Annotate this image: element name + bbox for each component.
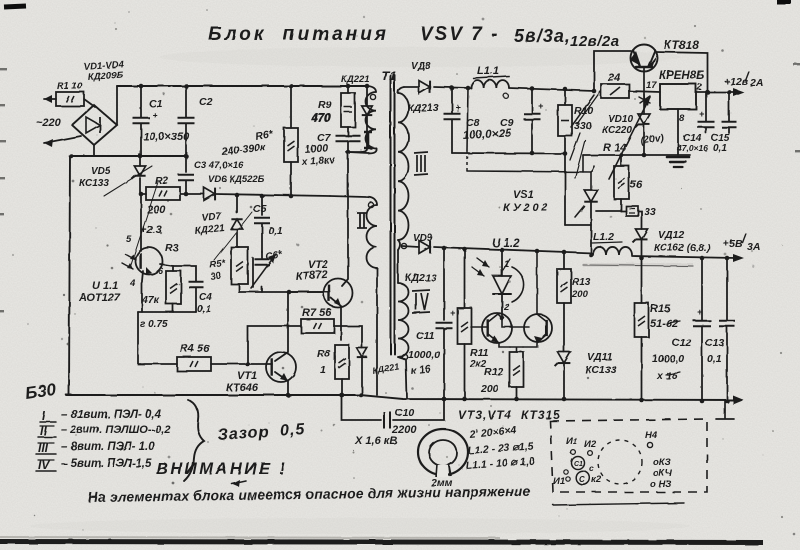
transistor VT4 <box>524 314 552 342</box>
wire C12 upper <box>701 258 703 320</box>
svg-text:100,0×25: 100,0×25 <box>463 127 512 142</box>
wire opto bottom rail <box>138 311 196 313</box>
resistor R10 <box>558 105 572 136</box>
svg-text:5: 5 <box>126 234 132 245</box>
svg-text:L1.1: L1.1 <box>477 65 499 77</box>
svg-text:с: с <box>589 463 594 473</box>
node top rail R6 <box>289 84 294 89</box>
wire VD10 lower <box>643 125 645 155</box>
svg-text:VD10: VD10 <box>608 114 633 125</box>
svg-text:VD7: VD7 <box>201 211 222 224</box>
svg-text:КС133: КС133 <box>585 364 617 376</box>
scan specks <box>0 68 7 70</box>
node C5 top <box>260 194 265 199</box>
wire C2 upper <box>185 86 187 117</box>
black strip bottom edge <box>0 542 763 543</box>
node VT1 collector tap <box>287 290 292 295</box>
wire VD5 to R2 <box>139 178 141 194</box>
svg-text:2: 2 <box>696 82 702 92</box>
R14 arrow <box>609 97 650 179</box>
wire C13 lower <box>726 327 728 401</box>
svg-text:С: С <box>579 475 585 484</box>
wire C10 left leg <box>342 395 382 420</box>
svg-text:17: 17 <box>646 80 657 91</box>
svg-text:C13: C13 <box>705 337 724 349</box>
svg-text:47к: 47к <box>141 294 160 306</box>
wire LED lower <box>501 294 503 318</box>
svg-text:330: 330 <box>574 120 592 132</box>
wire R4 left riser <box>138 312 177 364</box>
resistor R13 <box>557 269 571 303</box>
svg-text:VSV 7 -: VSV 7 - <box>420 24 499 45</box>
wire snubber diode bottom <box>361 357 363 395</box>
wire C10 right leg <box>393 399 444 420</box>
wire 56 upper <box>620 155 622 166</box>
svg-text:1: 1 <box>320 364 326 376</box>
capacitor C2 <box>178 118 195 124</box>
node R8 bottom rail <box>340 393 345 398</box>
svg-text:C2: C2 <box>199 96 213 108</box>
wire R9 upper <box>347 86 349 93</box>
winding III-IV tap dot <box>401 243 406 248</box>
resistor R2 <box>146 187 180 200</box>
black dash top-right corner <box>777 0 791 5</box>
wire bottom rail <box>66 395 737 400</box>
wire VT2 base <box>289 291 330 293</box>
pin I2 circle <box>588 451 593 456</box>
wire VT3 base <box>471 326 488 328</box>
node C9 gnd <box>530 151 535 156</box>
wire opto emitter pin4 <box>142 271 143 312</box>
zener VD10 <box>638 114 650 124</box>
inductor L1.2 <box>593 247 632 255</box>
node snubber <box>346 150 351 155</box>
node top rail R9 <box>346 84 351 89</box>
wire R15 upper <box>641 258 643 303</box>
bridge rectifier VD1-VD4 <box>72 105 117 145</box>
wire R2 to VD6 <box>180 193 204 195</box>
resistor R4 <box>177 357 211 371</box>
wire C5 stub top <box>261 196 263 215</box>
svg-text:R15: R15 <box>650 303 671 315</box>
node neg rail VD5 <box>138 154 143 159</box>
svg-text:R2: R2 <box>155 175 169 187</box>
wire VD11 lower <box>563 363 565 399</box>
light arrows into opto <box>125 254 136 260</box>
diode VD9 <box>419 241 430 254</box>
svg-text:R3: R3 <box>165 242 179 254</box>
wire C15 lower <box>728 128 730 133</box>
wire VT4 collector <box>537 251 547 322</box>
warning underline <box>553 503 684 505</box>
svg-text:Х 1,6 кВ: Х 1,6 кВ <box>354 435 397 447</box>
wire KT818 emitter riser <box>594 51 631 91</box>
svg-text:– 5вит. ПЭЛ-1,5: – 5вит. ПЭЛ-1,5 <box>61 458 152 470</box>
transistor KT818 <box>631 45 658 72</box>
svg-text:51-62: 51-62 <box>650 318 678 330</box>
svg-text:КТ818: КТ818 <box>664 38 699 52</box>
wire R11 upper <box>464 249 466 308</box>
wire VS1 anode riser <box>583 155 591 190</box>
wire R3 bottom <box>172 304 174 312</box>
node R10 tap <box>563 87 568 92</box>
wire emitter to snubber diode <box>341 326 362 348</box>
wire KD221 lower <box>348 115 367 152</box>
wire 56 lower <box>620 199 622 211</box>
wire AC input bottom with arrow <box>44 136 81 143</box>
resistor R3 <box>166 271 181 304</box>
svg-text:2мм: 2мм <box>430 477 453 489</box>
resistor R15 <box>635 303 649 337</box>
wire VT2 emitter <box>331 298 341 340</box>
winding III <box>398 87 404 93</box>
scan smudge bottom <box>30 518 690 534</box>
svg-text:VD9: VD9 <box>413 233 433 244</box>
wire VT1 collector <box>275 292 288 361</box>
node L1.1 left <box>466 86 471 91</box>
diode KD221 snubber <box>357 348 368 357</box>
svg-text:200: 200 <box>571 289 589 300</box>
wire R10 to VS1 bottom <box>565 224 591 226</box>
node top rail C2 <box>184 84 189 89</box>
node rail LED <box>500 248 505 253</box>
svg-text:VT3,VT4 КТ315: VT3,VT4 КТ315 <box>458 408 561 422</box>
capacitor C10 <box>384 412 390 429</box>
svg-text:г 0.75: г 0.75 <box>140 319 168 330</box>
wire C2 lower <box>185 124 187 156</box>
svg-text:4: 4 <box>129 278 136 289</box>
node R12 rail <box>514 397 519 402</box>
opto transistor U1.1 <box>136 248 163 275</box>
capacitor C8 <box>444 114 461 120</box>
wire VS1 gate to 33 <box>596 210 626 212</box>
node C3 bottom <box>184 192 189 197</box>
wire C12 lower <box>701 327 703 401</box>
svg-text:КС133: КС133 <box>79 178 109 189</box>
wire C3 upper <box>185 156 187 172</box>
wire VT1 base <box>211 363 272 365</box>
node C10 right rail <box>442 397 447 402</box>
svg-text:Н4: Н4 <box>645 430 658 441</box>
node R15 rail <box>639 398 644 403</box>
node rail C12 <box>700 256 705 261</box>
scan smudge top <box>160 47 680 67</box>
wire C9 upper <box>531 88 533 113</box>
svg-text:АОТ127: АОТ127 <box>78 292 121 304</box>
wire rail drop to box <box>716 400 734 419</box>
wire VD5 top <box>139 156 141 166</box>
dashed circle connector <box>598 440 642 484</box>
wire C9 lower <box>531 120 533 153</box>
wire C4 top link <box>173 266 196 281</box>
capacitor C6 variable <box>253 252 262 287</box>
inductor L1.1 <box>471 80 509 88</box>
wire VT3 collector <box>488 314 502 322</box>
svg-text:47,0×16: 47,0×16 <box>676 143 708 153</box>
wire R13 upper <box>563 252 565 269</box>
node output C14 <box>705 90 710 95</box>
node rail R11 <box>462 247 467 252</box>
wire opto base pin6 <box>160 264 173 271</box>
label winding III <box>414 152 428 175</box>
svg-text:C5: C5 <box>253 203 267 215</box>
svg-text:ВНИМАНИЕ !: ВНИМАНИЕ ! <box>156 460 287 478</box>
diode KD221 primary <box>362 106 373 115</box>
wire R11 lower <box>464 344 466 399</box>
wire C1 upper <box>140 86 142 117</box>
svg-text:U 1.2: U 1.2 <box>492 238 520 250</box>
zener VD5 <box>134 166 145 176</box>
stray stroke across VD5 <box>104 166 152 196</box>
node output C15 <box>727 90 732 95</box>
svg-text:R9: R9 <box>318 99 332 111</box>
wire C8 upper <box>451 88 453 113</box>
svg-text:к2: к2 <box>591 474 602 485</box>
capacitor C14 <box>698 122 715 128</box>
resistor R9 <box>341 93 355 127</box>
transformer T1 core <box>390 75 392 354</box>
svg-text:200: 200 <box>480 383 499 395</box>
svg-text:R4 56: R4 56 <box>180 343 210 355</box>
wire L1.1 to 24box <box>509 88 594 91</box>
wire VD7 to R5 <box>236 229 238 247</box>
svg-text:КД213: КД213 <box>405 272 437 284</box>
wire C13 upper <box>726 258 728 320</box>
faint crease line <box>583 265 693 266</box>
wire C6 bottom <box>261 287 263 292</box>
node neg rail left <box>69 154 74 159</box>
wire R9 lower <box>347 127 349 136</box>
thyristor VS1 <box>584 190 598 202</box>
svg-text:VД8: VД8 <box>411 61 431 72</box>
resistor R7 <box>301 319 334 333</box>
base scribble <box>639 94 650 106</box>
wire bridge plus up <box>116 86 118 125</box>
svg-text:R8: R8 <box>317 348 331 360</box>
node C10 left <box>339 393 344 398</box>
resistor R11 <box>458 308 472 344</box>
svg-text:КД213: КД213 <box>407 102 439 114</box>
wire VT4 emitter <box>523 334 547 347</box>
svg-text:оКЗ: оКЗ <box>653 457 671 468</box>
wire bridge minus down <box>93 145 95 156</box>
svg-text:КС162 (6.8.): КС162 (6.8.) <box>654 243 711 254</box>
wire VD12 lower <box>641 240 643 258</box>
svg-text:– 8вит. ПЭЛ- 1.0: – 8вит. ПЭЛ- 1.0 <box>61 441 155 453</box>
node R6 bottom <box>289 194 294 199</box>
svg-text:+5В: +5В <box>723 238 743 250</box>
svg-text:2: 2 <box>503 302 510 313</box>
svg-text:200: 200 <box>146 204 166 216</box>
wire R13 lower <box>563 303 565 352</box>
zener VD11 <box>558 352 571 363</box>
node LED base junction <box>500 316 505 321</box>
svg-text:0,1: 0,1 <box>197 304 211 315</box>
wire VT4 base <box>502 318 529 327</box>
wire 24box to KREN <box>629 91 660 92</box>
winding I <box>368 86 376 92</box>
node VT1 emitter rail <box>286 393 291 398</box>
wire R5 bottom <box>238 284 240 292</box>
svg-text:8: 8 <box>679 113 685 124</box>
node bypass left <box>592 89 597 94</box>
wire C7 lower <box>347 141 349 152</box>
pin small o left <box>564 470 568 474</box>
svg-text:VD5: VD5 <box>91 166 111 177</box>
svg-text:+: + <box>450 308 456 318</box>
wire left rail down <box>69 156 70 395</box>
diode VD7 <box>231 219 242 229</box>
svg-text:12в/2а: 12в/2а <box>570 33 620 50</box>
wire base rail y292 <box>239 291 329 293</box>
svg-text:VT1: VT1 <box>237 370 257 382</box>
node rail VD12 <box>639 256 644 261</box>
svg-text:L1.2: L1.2 <box>593 231 614 243</box>
svg-text:C4: C4 <box>199 292 212 303</box>
label winding IV <box>412 290 430 313</box>
wire R2 left stub <box>141 193 146 195</box>
svg-text:R13: R13 <box>572 277 591 288</box>
wire emitters to R12 <box>510 347 523 352</box>
transistor VT3 <box>482 313 512 343</box>
svg-text:к 16: к 16 <box>410 363 431 377</box>
opto emitter arrow <box>146 267 152 274</box>
wire KREN output <box>696 91 737 93</box>
svg-text:х 16: х 16 <box>656 370 678 382</box>
wire C4 bottom <box>195 288 197 312</box>
legend brace <box>184 400 204 481</box>
resistor R6 <box>284 128 298 162</box>
capacitor C13 <box>719 321 735 327</box>
wire R7 right <box>334 325 341 327</box>
node VD5 R2 <box>139 192 144 197</box>
wire R8 bottom <box>341 379 343 395</box>
ground symbol <box>667 156 689 159</box>
capacitor C4 <box>189 282 204 288</box>
wire C15 upper <box>728 92 730 121</box>
svg-text:0,1: 0,1 <box>707 353 722 365</box>
stray stroke VD7 <box>214 212 252 260</box>
resistor R1 <box>56 92 84 106</box>
wire AC input top with arrow <box>44 98 56 100</box>
svg-text:КТ872: КТ872 <box>295 269 328 283</box>
capacitor C9 <box>524 114 541 120</box>
wire VD8 to L1.1 <box>434 87 471 88</box>
resistor 33 <box>626 206 638 216</box>
svg-text:К У 2 0 2: К У 2 0 2 <box>503 202 548 214</box>
svg-text:C10: C10 <box>395 407 414 419</box>
wire LED upper <box>501 250 503 276</box>
wire C11 lower <box>443 329 445 399</box>
node C8 tap <box>450 86 455 91</box>
svg-text:VД11: VД11 <box>587 351 613 363</box>
svg-text:1000,0: 1000,0 <box>652 353 684 365</box>
node 56 top <box>619 153 624 158</box>
capacitor C11 <box>436 323 453 329</box>
svg-text:5в/3а,: 5в/3а, <box>514 26 571 46</box>
wire VS1 cathode <box>590 202 592 255</box>
transistor VT1 <box>266 352 296 382</box>
svg-text:КД221: КД221 <box>341 74 370 85</box>
svg-text:C12: C12 <box>672 337 691 349</box>
svg-text:R7 56: R7 56 <box>302 307 332 319</box>
wire opto collector pin5 <box>140 194 142 251</box>
node C13 rail <box>725 399 730 404</box>
wire VT1 emitter <box>275 372 288 395</box>
winding IV end dot <box>402 354 407 359</box>
node top rail C1 <box>139 84 144 89</box>
svg-text:C3 47,0×16: C3 47,0×16 <box>194 160 244 171</box>
capacitor C15 <box>722 122 737 128</box>
svg-text:0,1: 0,1 <box>268 225 283 237</box>
node snubber bottom rail <box>359 393 364 398</box>
svg-text:Блок питания: Блок питания <box>208 24 389 45</box>
wire KT818 collector <box>655 52 708 92</box>
wire C14 lower <box>705 128 707 133</box>
wire C14 upper <box>705 92 707 121</box>
svg-text:КРЕН8Б: КРЕН8Б <box>659 70 704 82</box>
wire crowbar loop <box>467 88 468 150</box>
label winding I <box>364 132 372 148</box>
pin C1 circled <box>572 457 585 470</box>
svg-text:+2.3: +2.3 <box>140 224 162 236</box>
wire R12 lower <box>516 387 518 399</box>
wire C8 lower <box>451 120 453 153</box>
led arrows <box>477 258 489 267</box>
diode VD8 <box>419 81 430 94</box>
svg-text:КТ646: КТ646 <box>226 382 259 394</box>
svg-text:оКЧ: оКЧ <box>653 468 672 479</box>
node R4 base riser <box>245 362 250 367</box>
svg-text:+: + <box>152 110 158 120</box>
svg-text:И1: И1 <box>553 476 565 487</box>
wire U1.2 rail <box>434 247 593 253</box>
wire VD7 stub <box>236 195 238 213</box>
diode VD6 <box>204 188 215 201</box>
svg-text:56: 56 <box>630 179 643 191</box>
toroid core sketch <box>418 429 468 475</box>
svg-text:2А: 2А <box>749 77 763 89</box>
capacitor C1 <box>133 118 150 124</box>
node VD11 rail <box>562 397 567 402</box>
node top rail KD221 <box>365 84 370 89</box>
wire VT2 collector <box>342 152 348 286</box>
svg-text:33: 33 <box>644 206 656 218</box>
pin C2 circled <box>576 471 590 485</box>
winding II polarity dot <box>368 202 373 207</box>
svg-text:470: 470 <box>311 112 332 124</box>
vnimanie arrow <box>232 481 246 484</box>
node R11 rail <box>462 397 467 402</box>
wire R15 lower <box>641 337 643 400</box>
wire R10 upper <box>564 89 566 105</box>
svg-text:U 1.1: U 1.1 <box>92 280 118 292</box>
svg-text:о НЗ: о НЗ <box>650 479 671 490</box>
wire R6 lower <box>290 162 292 196</box>
wire 5V rail right <box>632 256 736 258</box>
winding II <box>330 196 377 205</box>
svg-text:R 14: R 14 <box>603 142 626 154</box>
svg-text:– 81вит. ПЭЛ- 0,4: – 81вит. ПЭЛ- 0,4 <box>61 409 162 421</box>
L1.1 polarity dot <box>504 94 509 99</box>
wire winding III to VD8 <box>404 86 419 88</box>
transistor VT2 <box>324 279 353 308</box>
wire C11 upper <box>443 248 445 320</box>
winding I polarity dot <box>370 94 375 99</box>
wire R1 to bridge <box>84 99 95 107</box>
label winding II <box>357 213 367 228</box>
capacitor C7 <box>336 136 361 142</box>
